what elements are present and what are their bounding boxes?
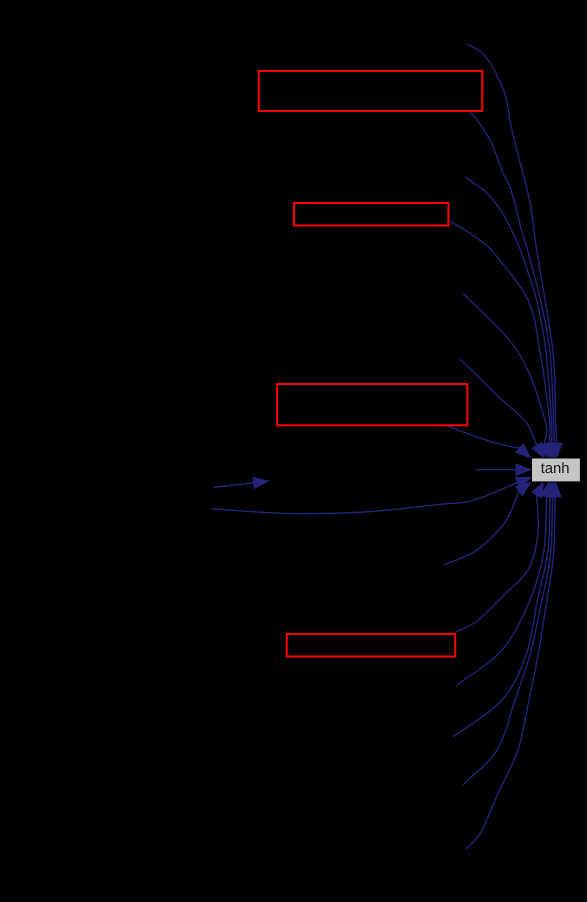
edge I — [213, 477, 268, 488]
node box3 (red, truncated caller) — [277, 384, 467, 425]
node tanh (current function) — [532, 458, 581, 482]
edge N — [453, 482, 556, 737]
edge J — [212, 477, 531, 513]
node box1 (red, truncated caller) — [259, 71, 483, 111]
edge K — [444, 482, 531, 565]
edge M — [456, 482, 552, 686]
edge P — [466, 482, 561, 849]
edge C — [465, 177, 557, 458]
node box4 (red, truncated caller) — [287, 634, 456, 657]
edge B — [469, 111, 560, 458]
node box2 (red, truncated caller) — [294, 203, 449, 226]
edge E — [463, 293, 550, 458]
edge L — [456, 482, 544, 632]
edge G — [448, 426, 531, 458]
edge A — [467, 44, 562, 458]
edge D — [450, 222, 555, 458]
edge O — [463, 482, 558, 785]
edge H — [476, 464, 531, 475]
edge F — [460, 359, 545, 458]
